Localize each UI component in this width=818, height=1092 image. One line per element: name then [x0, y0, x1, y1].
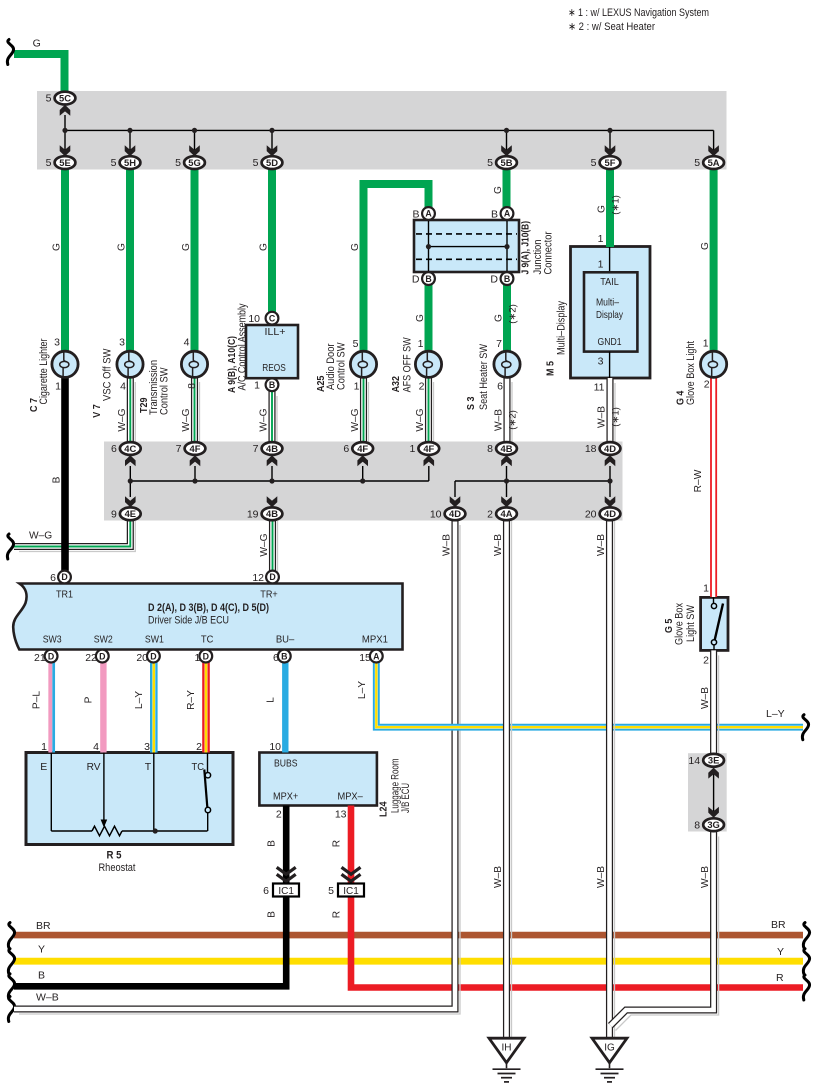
svg-text:10: 10 — [269, 741, 281, 753]
svg-text:6: 6 — [50, 572, 56, 584]
svg-text:V 7: V 7 — [92, 404, 103, 418]
squiggle Y left — [8, 949, 14, 974]
svg-text:5C: 5C — [59, 93, 71, 104]
svg-text:1: 1 — [354, 381, 360, 393]
wire G 5F to multi-display — [606, 169, 614, 247]
svg-text:7: 7 — [176, 443, 182, 455]
svg-text:4E: 4E — [125, 508, 136, 519]
svg-text:Y: Y — [777, 946, 784, 958]
svg-text:Control SW: Control SW — [159, 367, 171, 415]
wire G 5B to junction connector — [503, 169, 511, 208]
svg-text:C: C — [269, 313, 276, 323]
svg-text:Cigarette Lighter: Cigarette Lighter — [38, 338, 50, 404]
svg-text:W–B: W–B — [442, 534, 453, 556]
svg-text:B: B — [38, 970, 45, 982]
svg-text:G: G — [33, 38, 41, 50]
svg-text:D: D — [48, 651, 54, 661]
harness band middle — [104, 442, 623, 521]
lamp G4 glove box light — [701, 351, 727, 377]
svg-text:(∗1): (∗1) — [611, 407, 622, 427]
wire G 5E to cigarette lighter — [61, 169, 69, 352]
svg-text:20: 20 — [136, 652, 148, 664]
connector 3E pin14 — [703, 754, 724, 767]
ECU terminal 22 D — [96, 650, 109, 663]
svg-text:5: 5 — [175, 157, 181, 169]
connector 5F — [600, 156, 621, 169]
M5 multi-display outer box — [571, 247, 651, 379]
svg-text:1: 1 — [703, 583, 709, 595]
band1 junction dots — [62, 128, 67, 133]
svg-text:3G: 3G — [707, 819, 720, 830]
svg-text:B: B — [267, 911, 278, 918]
squiggle R right — [803, 975, 809, 1000]
svg-text:5H: 5H — [124, 157, 136, 168]
svg-text:IH: IH — [502, 1043, 512, 1054]
svg-text:L–Y: L–Y — [357, 681, 368, 699]
squiggle Y right — [803, 949, 809, 974]
svg-text:B: B — [504, 274, 510, 284]
svg-text:L: L — [266, 697, 277, 703]
svg-text:J 9(A), J10(B): J 9(A), J10(B) — [520, 221, 531, 275]
svg-text:6: 6 — [273, 652, 279, 664]
svg-text:TC: TC — [201, 634, 214, 646]
ECU box D2 D3 D4 D5 Driver Side J/B ECU — [13, 584, 402, 650]
R5 internal wire E — [50, 753, 52, 832]
svg-text:W–B: W–B — [494, 409, 505, 431]
svg-text:G: G — [597, 205, 608, 213]
L24 luggage room J/B ECU box — [259, 753, 377, 806]
M5 inner box — [584, 272, 637, 351]
svg-text:6: 6 — [263, 885, 269, 897]
connector 5E — [55, 156, 76, 169]
junction connector J9(A) J10(B) box — [414, 220, 519, 272]
3E-3G link — [713, 767, 715, 818]
svg-text:21: 21 — [34, 652, 46, 664]
junction terminal B right — [501, 272, 514, 285]
svg-text:TR1: TR1 — [56, 589, 73, 601]
svg-text:5: 5 — [328, 885, 334, 897]
svg-text:ILL+: ILL+ — [265, 327, 286, 338]
wire W-B 3G to ground IG join — [616, 837, 719, 1031]
svg-text:5E: 5E — [59, 157, 70, 168]
svg-text:Rheostat: Rheostat — [99, 862, 136, 874]
svg-text:G: G — [700, 242, 711, 250]
squiggle W-B left — [8, 997, 14, 1022]
svg-text:2: 2 — [703, 655, 709, 667]
svg-text:A32: A32 — [391, 376, 402, 393]
svg-text:B: B — [267, 840, 278, 847]
svg-text:4B: 4B — [266, 508, 278, 519]
wire G junction-A to audio door control SW — [364, 184, 429, 352]
svg-text:4: 4 — [184, 337, 190, 349]
svg-text:S 3: S 3 — [466, 396, 477, 410]
svg-text:G: G — [259, 243, 270, 251]
svg-text:5A: 5A — [708, 157, 720, 168]
svg-text:5D: 5D — [266, 157, 278, 168]
svg-text:1: 1 — [254, 380, 260, 392]
lamp S3 seat heater SW — [494, 351, 520, 377]
IC1 connector left pin6 — [273, 884, 299, 897]
svg-text:G: G — [350, 243, 361, 251]
svg-text:MPX1: MPX1 — [362, 634, 388, 646]
lamp T29 transmission control SW — [181, 351, 207, 377]
svg-text:B: B — [425, 274, 431, 284]
band2 dots left — [128, 478, 133, 483]
svg-text:1: 1 — [55, 381, 61, 393]
band2 bus line left — [129, 466, 131, 497]
svg-text:L–Y: L–Y — [766, 708, 785, 720]
wire P SW2 to R5 RV — [100, 662, 106, 752]
band2 dots right — [504, 478, 509, 483]
svg-text:W–B: W–B — [700, 866, 711, 888]
svg-text:AFS OFF SW: AFS OFF SW — [402, 337, 414, 393]
svg-text:Driver Side J/B ECU: Driver Side J/B ECU — [148, 615, 229, 627]
svg-text:VSC Off SW: VSC Off SW — [102, 348, 114, 401]
svg-text:D: D — [61, 572, 67, 582]
svg-text:G: G — [52, 243, 63, 251]
svg-text:5: 5 — [487, 157, 493, 169]
wire L-Y SW1 to R5 T — [150, 662, 158, 752]
svg-text:W–B: W–B — [596, 866, 607, 888]
svg-text:Light SW: Light SW — [685, 604, 697, 642]
svg-text:1: 1 — [598, 259, 604, 271]
svg-text:BR: BR — [36, 920, 51, 932]
connector 4B pin19 — [262, 507, 283, 520]
connector 3G pin8 — [703, 818, 724, 831]
svg-text:2: 2 — [276, 809, 282, 821]
R5 internal switch TC — [207, 753, 209, 773]
off-page wire W-G left — [19, 521, 135, 552]
svg-text:13: 13 — [335, 809, 347, 821]
svg-text:3: 3 — [598, 356, 604, 368]
bus BR brown — [14, 932, 803, 939]
svg-text:Multi–: Multi– — [596, 298, 619, 309]
A/C terminal B pin1 — [266, 378, 279, 391]
svg-text:1: 1 — [418, 338, 424, 350]
svg-text:2: 2 — [419, 381, 425, 393]
svg-text:(∗2): (∗2) — [508, 304, 519, 324]
svg-text:TC: TC — [192, 761, 205, 773]
connector 4B pin7 — [262, 442, 283, 455]
wire L-Y MPX1 horizontal — [376, 662, 803, 727]
svg-text:B: B — [412, 209, 419, 221]
svg-text:14: 14 — [688, 755, 700, 767]
wire B MPX+ to IC1 — [283, 806, 290, 885]
wire G 5H to VSC off SW — [126, 169, 134, 352]
wire W-B 4A to ground IH — [511, 521, 513, 1043]
svg-text:D: D — [99, 651, 105, 661]
svg-text:5F: 5F — [605, 157, 616, 168]
svg-text:P–L: P–L — [32, 691, 43, 709]
wire W-B seat heater to 4B — [511, 382, 513, 448]
svg-text:E: E — [40, 761, 47, 773]
svg-text:7: 7 — [496, 338, 502, 350]
connector 4F pin6 — [352, 442, 373, 455]
svg-text:TR+: TR+ — [260, 589, 278, 601]
ECU terminal 12 D — [266, 571, 279, 584]
svg-text:G: G — [493, 186, 504, 194]
wire G 5D to A/C assembly — [268, 169, 276, 313]
svg-text:4A: 4A — [501, 508, 513, 519]
svg-text:L–Y: L–Y — [134, 691, 145, 709]
R5 rheostat box — [26, 753, 233, 845]
svg-text:20: 20 — [585, 508, 597, 520]
svg-text:G: G — [494, 314, 505, 322]
svg-text:3: 3 — [54, 337, 60, 349]
svg-text:BUBS: BUBS — [274, 758, 298, 770]
wire W-B bus bottom left — [19, 525, 460, 1014]
svg-text:4B: 4B — [266, 443, 278, 454]
svg-text:22: 22 — [85, 652, 97, 664]
svg-text:5: 5 — [694, 157, 700, 169]
svg-text:18: 18 — [585, 443, 597, 455]
connector 5H — [120, 156, 141, 169]
svg-text:A: A — [504, 209, 511, 219]
svg-text:W–B: W–B — [596, 534, 607, 556]
svg-text:4D: 4D — [449, 508, 461, 519]
off-page squiggle W-G — [7, 534, 13, 559]
svg-text:12: 12 — [252, 572, 264, 584]
svg-text:6: 6 — [111, 443, 117, 455]
connector 4F pin1 — [418, 442, 439, 455]
squiggle G top-left — [7, 40, 13, 65]
svg-text:D: D — [490, 274, 498, 286]
svg-text:9: 9 — [111, 508, 117, 520]
svg-text:W–B: W–B — [493, 534, 504, 556]
svg-text:R–Y: R–Y — [186, 690, 197, 710]
svg-text:R 5: R 5 — [107, 850, 122, 862]
svg-text:1: 1 — [195, 652, 201, 664]
lamp A25 audio door control SW — [350, 351, 376, 377]
connector 4C — [120, 442, 141, 455]
squiggle BR right — [803, 923, 809, 948]
svg-text:3: 3 — [119, 337, 125, 349]
svg-text:BR: BR — [771, 919, 786, 931]
svg-text:A/C Control Assembly: A/C Control Assembly — [237, 303, 249, 390]
svg-text:D: D — [150, 651, 156, 661]
ECU terminal 1 D — [199, 650, 212, 663]
svg-text:RV: RV — [87, 761, 101, 773]
svg-text:5: 5 — [591, 157, 597, 169]
svg-text:T: T — [145, 761, 152, 773]
svg-text:D: D — [269, 572, 275, 582]
svg-text:19: 19 — [247, 508, 259, 520]
svg-text:3E: 3E — [708, 755, 719, 766]
svg-text:Display: Display — [596, 310, 624, 321]
junction terminal A right — [501, 207, 514, 220]
R5 internal wire RV with wiper arrow — [103, 753, 105, 821]
svg-text:IC1: IC1 — [278, 886, 294, 897]
svg-text:5: 5 — [353, 338, 359, 350]
svg-text:W–B: W–B — [493, 866, 504, 888]
wire P-L SW3 to R5 E — [48, 662, 52, 752]
band1 bus line — [64, 115, 66, 156]
svg-text:M 5: M 5 — [545, 361, 556, 376]
IC1 connector right pin5 — [338, 884, 364, 897]
bus Y yellow — [14, 958, 803, 965]
svg-text:∗ 1 : w/ LEXUS Navigation Syst: ∗ 1 : w/ LEXUS Navigation System — [568, 7, 709, 19]
svg-text:2: 2 — [196, 741, 202, 753]
svg-text:W–B: W–B — [36, 992, 59, 1004]
svg-text:B: B — [491, 209, 498, 221]
svg-text:P: P — [84, 696, 95, 703]
connector 4B pin8 — [496, 442, 517, 455]
lamp A32 AFS off SW — [415, 351, 441, 377]
svg-text:3: 3 — [144, 741, 150, 753]
svg-text:G: G — [415, 314, 426, 322]
band2 bus line right — [455, 480, 610, 482]
M5 pin1 internal lead — [609, 247, 611, 273]
connector 5C — [55, 92, 76, 105]
svg-text:MPX+: MPX+ — [273, 791, 298, 803]
wire R MPX- to IC1 — [348, 806, 355, 885]
svg-text:11: 11 — [594, 382, 605, 394]
svg-text:A: A — [373, 651, 380, 661]
wire W-G audio door to 4F — [368, 382, 370, 448]
svg-text:5: 5 — [253, 157, 259, 169]
chevron arrows above IC1 right — [342, 867, 361, 874]
svg-text:B: B — [52, 476, 63, 483]
connector 5B — [496, 156, 517, 169]
squiggle L-Y right — [802, 715, 808, 740]
svg-text:L24: L24 — [378, 801, 389, 817]
svg-text:IG: IG — [604, 1043, 615, 1054]
wire W-B multi-display to 4D — [614, 383, 616, 448]
svg-text:7: 7 — [253, 443, 259, 455]
wire G junction-B to seat heater SW — [503, 284, 511, 352]
wire R red bus bottom — [351, 897, 803, 988]
svg-text:1: 1 — [41, 741, 47, 753]
wire W-G AFS off to 4F — [433, 382, 435, 448]
svg-text:B: B — [281, 651, 287, 661]
harness band small (3E/3G) — [688, 753, 727, 831]
svg-text:Multi–Display: Multi–Display — [556, 300, 568, 355]
svg-text:∗ 2 : w/ Seat Heater: ∗ 2 : w/ Seat Heater — [568, 21, 655, 33]
connector 5A — [703, 156, 724, 169]
svg-text:D 2(A), D 3(B), D 4(C), D 5(D): D 2(A), D 3(B), D 4(C), D 5(D) — [148, 602, 269, 614]
svg-text:G: G — [181, 243, 192, 251]
svg-text:W–B: W–B — [597, 406, 608, 428]
svg-text:(∗2): (∗2) — [508, 410, 519, 430]
A/C terminal C pin10 — [266, 312, 279, 325]
wire W-B G5 to 3E — [718, 655, 720, 759]
ground IH — [489, 1038, 524, 1063]
svg-text:B: B — [269, 380, 275, 390]
harness band top (instrument panel wire) — [37, 91, 727, 170]
junction terminal A left — [422, 207, 435, 220]
connector 4D pin18 — [600, 442, 621, 455]
svg-text:4F: 4F — [357, 443, 368, 454]
band1 arrows down — [60, 145, 71, 156]
svg-text:8: 8 — [186, 383, 198, 389]
svg-text:R: R — [332, 911, 343, 918]
svg-text:4F: 4F — [190, 443, 201, 454]
M5 pin3 internal lead — [609, 352, 611, 378]
svg-text:2: 2 — [704, 379, 710, 391]
svg-text:W–G: W–G — [117, 408, 128, 431]
connector 4F pin7 — [185, 442, 206, 455]
wire W-B 4D20 to ground IG — [614, 521, 616, 1043]
wire L BU- to BUBS — [282, 662, 288, 752]
squiggle B left — [8, 974, 14, 999]
svg-text:D: D — [203, 651, 209, 661]
ECU terminal 15 A — [370, 650, 383, 663]
svg-text:Y: Y — [38, 944, 45, 956]
wire R-Y TC to R5 TC — [202, 662, 210, 752]
junction connector dashed rows — [416, 233, 517, 235]
band1 arrow up to 5C — [60, 105, 71, 116]
ECU terminal 21 D — [45, 650, 58, 663]
band2 arrows up — [125, 455, 136, 466]
ECU terminal 6 D — [58, 571, 71, 584]
svg-text:R: R — [332, 840, 343, 847]
svg-text:5: 5 — [46, 157, 52, 169]
R5 resistor zigzag — [92, 826, 122, 836]
svg-text:5: 5 — [111, 157, 117, 169]
svg-text:Seat Heater SW: Seat Heater SW — [478, 343, 490, 410]
svg-text:1: 1 — [598, 233, 604, 245]
svg-text:W–G: W–G — [259, 533, 270, 556]
svg-text:GND1: GND1 — [598, 337, 622, 348]
ground IG — [592, 1038, 627, 1063]
svg-text:R–W: R–W — [693, 469, 704, 492]
svg-text:W–G: W–G — [350, 408, 361, 431]
svg-text:Connector: Connector — [543, 231, 555, 274]
svg-text:4B: 4B — [501, 443, 513, 454]
ECU terminal 6 B — [278, 650, 291, 663]
wire W-G A/C REOS to 4B — [276, 396, 278, 448]
lamp C7 cigarette lighter — [52, 351, 78, 377]
wire G 5A to glove box light — [710, 169, 718, 352]
svg-text:4D: 4D — [604, 508, 616, 519]
svg-text:TAIL: TAIL — [600, 277, 619, 288]
squiggle BR left — [8, 923, 14, 948]
wire G junction-B to AFS off SW — [425, 284, 433, 352]
svg-text:4: 4 — [93, 741, 99, 753]
lamp V7 VSC off SW — [117, 351, 143, 377]
svg-text:IC1: IC1 — [343, 886, 359, 897]
svg-text:BU–: BU– — [276, 634, 295, 646]
svg-text:W–B: W–B — [700, 687, 711, 709]
svg-text:J/B ECU: J/B ECU — [400, 783, 412, 813]
connector 4A pin2 — [496, 507, 517, 520]
wire B black bus bottom — [14, 897, 286, 987]
R5 internal wire T — [153, 753, 155, 832]
wire W-G 4B19 to TR+ — [277, 521, 279, 576]
svg-text:1: 1 — [703, 338, 709, 350]
svg-text:SW2: SW2 — [94, 634, 113, 646]
ECU terminal 20 D — [147, 650, 160, 663]
wire G feed top-left — [14, 54, 65, 92]
connector 4D pin10 — [445, 507, 466, 520]
svg-text:5G: 5G — [188, 157, 201, 168]
svg-text:15: 15 — [359, 652, 371, 664]
svg-text:G: G — [117, 243, 128, 251]
svg-text:W–G: W–G — [415, 408, 426, 431]
svg-text:W–G: W–G — [29, 531, 52, 542]
connector 5G — [184, 156, 205, 169]
connector 4E pin9 — [120, 507, 141, 520]
chevron arrows above IC1 left — [277, 867, 296, 874]
svg-text:4D: 4D — [604, 443, 616, 454]
wire R-W glove box light to G5 switch — [710, 377, 717, 597]
svg-text:4C: 4C — [124, 443, 136, 454]
svg-text:1: 1 — [409, 443, 415, 455]
wire G 5G to transmission control SW — [191, 169, 199, 352]
wire W-G transmission to 4F — [199, 382, 201, 448]
wire B cigarette lighter to TR1 — [61, 377, 69, 571]
A/C control assembly box A9(B) A10(C) — [246, 325, 298, 378]
